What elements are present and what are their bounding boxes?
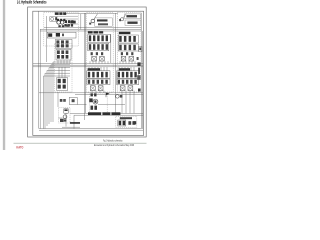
svg-text:Fig.2 Hydraulic schematics: Fig.2 Hydraulic schematics [103,139,123,142]
svg-text:2-1 Hydraulic Schematics: 2-1 Hydraulic Schematics [17,0,47,4]
svg-text:KATO: KATO [16,146,23,150]
svg-text:Excavator and hydraulic schema: Excavator and hydraulic schematics May 2… [94,144,134,147]
